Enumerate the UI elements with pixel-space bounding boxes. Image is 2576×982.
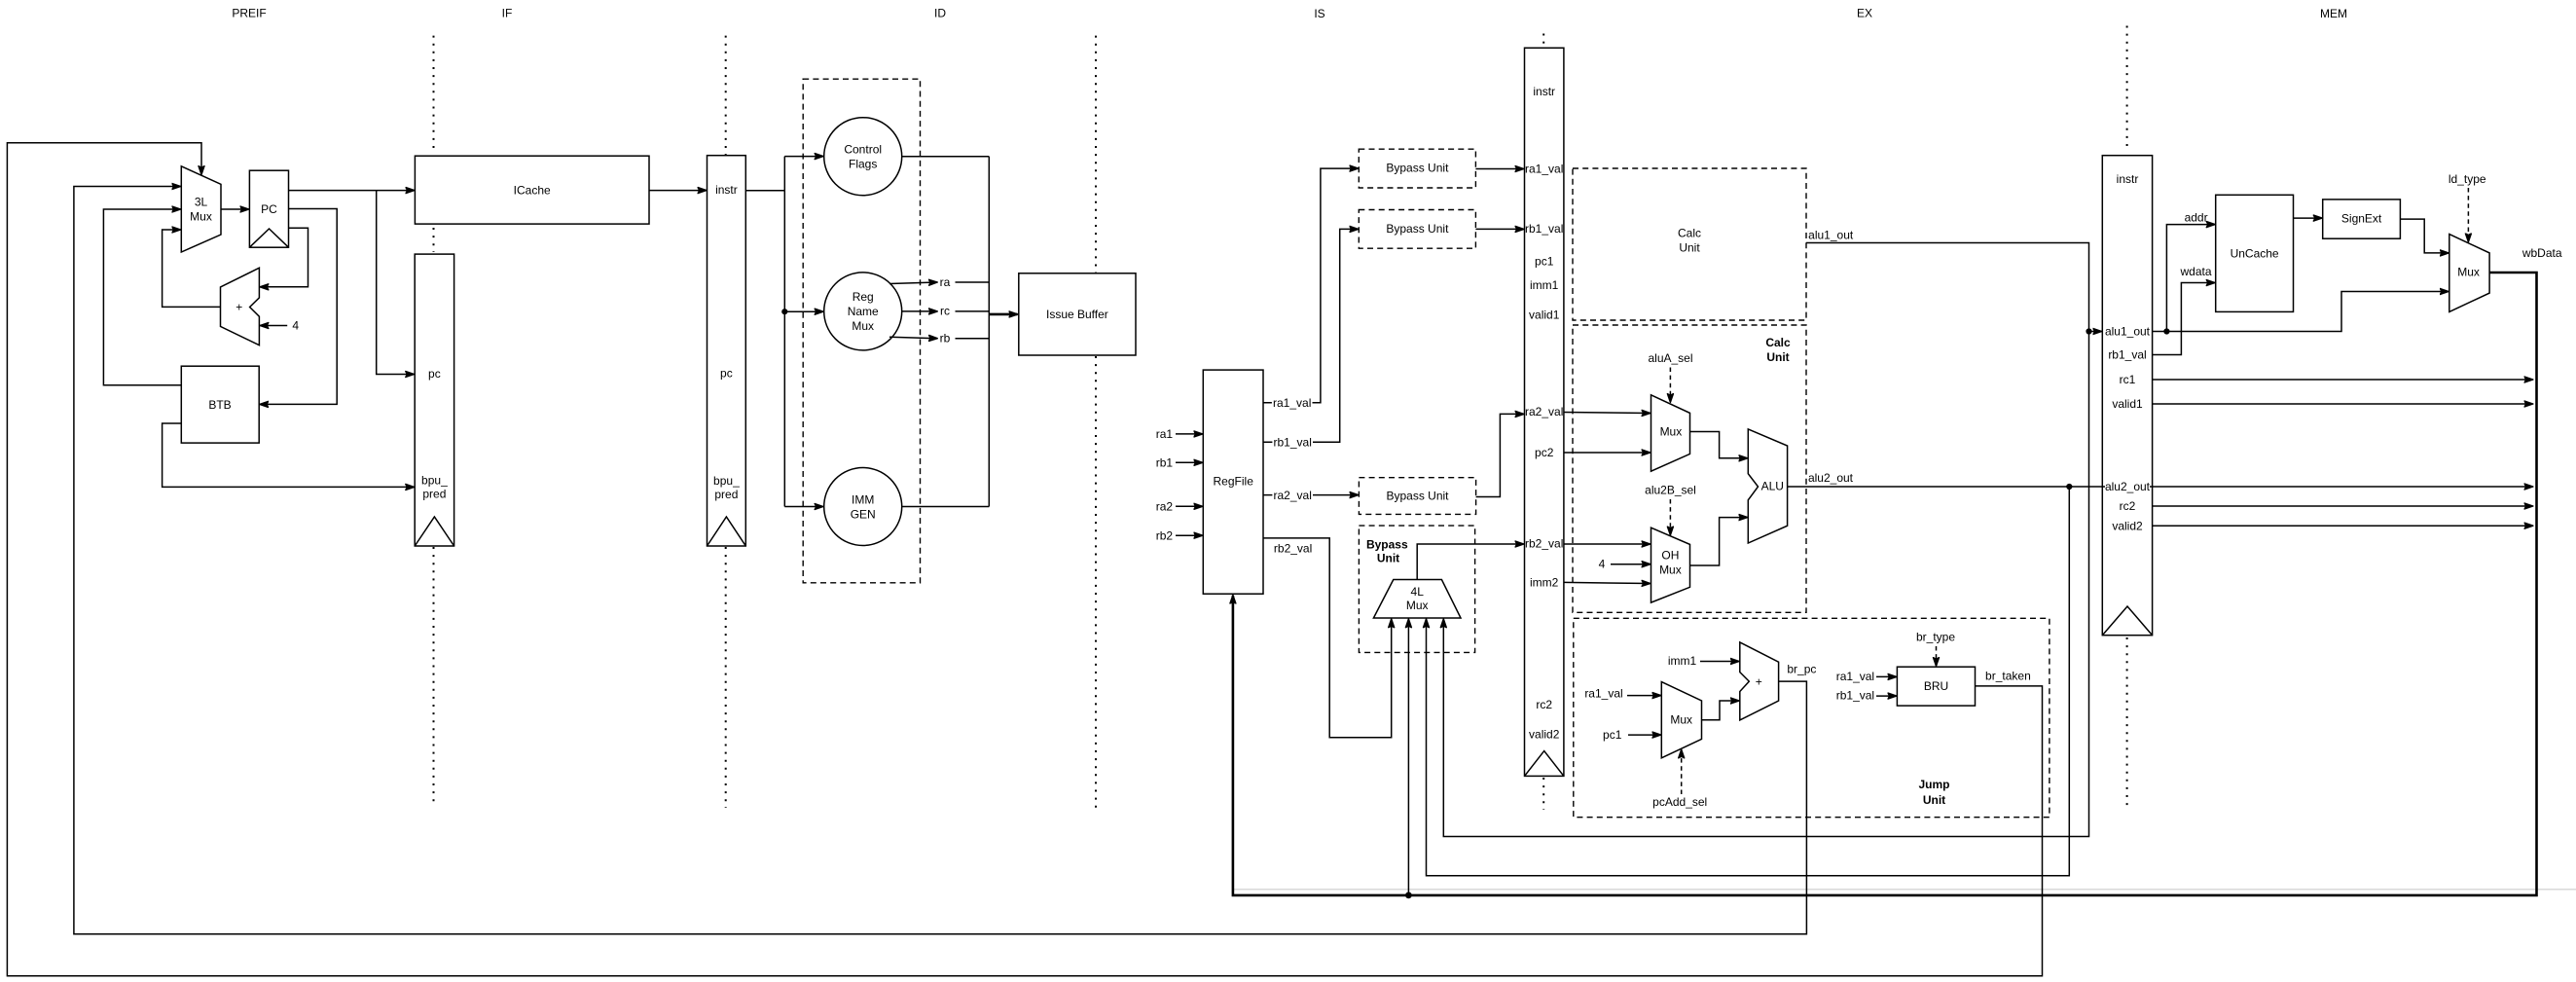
svg-text:Unit: Unit: [1923, 793, 1945, 807]
svg-text:Mux: Mux: [1660, 425, 1683, 439]
bypass unit 3 (dashed): [1359, 478, 1475, 515]
svg-text:imm2: imm2: [1530, 576, 1559, 590]
wire 3L Mux output to PC: [221, 208, 248, 210]
wire ra1 into RegFile: [1176, 433, 1202, 435]
svg-text:br_taken: br_taken: [1985, 669, 2031, 682]
svg-text:ID: ID: [934, 7, 946, 20]
wire Reg Name Mux to rc: [902, 310, 937, 312]
circle IMM GEN: [824, 468, 902, 546]
svg-text:Calc: Calc: [1765, 336, 1791, 349]
svg-text:rc1: rc1: [2120, 373, 2136, 386]
block Issue Buffer: [1019, 273, 1136, 355]
svg-text:pcAdd_sel: pcAdd_sel: [1652, 795, 1707, 809]
svg-text:Mux: Mux: [852, 319, 874, 333]
svg-text:ra1: ra1: [1156, 427, 1174, 441]
svg-text:rc2: rc2: [2120, 499, 2136, 513]
svg-text:aluA_sel: aluA_sel: [1648, 351, 1692, 365]
label alu1_out (in reg): [2105, 325, 2151, 339]
svg-text:Bypass Unit: Bypass Unit: [1386, 161, 1449, 174]
dashed select wire br_type to BRU: [1936, 646, 1938, 666]
wire br_pc feedback to 3L Mux input 1: [74, 187, 1807, 934]
svg-text:Bypass Unit: Bypass Unit: [1386, 222, 1449, 236]
wire Reg Name Mux to rb: [889, 337, 937, 339]
wire Reg Name Mux to ra: [889, 282, 937, 284]
svg-text:pc: pc: [720, 367, 733, 381]
wire rb2_val RegFile loop to 4L Mux input 1: [1263, 538, 1392, 738]
wire OH Mux to ALU input 2: [1690, 518, 1748, 565]
svg-text:Reg: Reg: [853, 290, 874, 304]
svg-text:MEM: MEM: [2320, 7, 2347, 20]
svg-text:alu1_out: alu1_out: [1808, 229, 1854, 242]
svg-text:Bypass Unit: Bypass Unit: [1386, 490, 1449, 503]
svg-text:ra1_val: ra1_val: [1525, 162, 1563, 175]
svg-text:UnCache: UnCache: [2231, 246, 2279, 260]
wire Bypass Unit 2 to IS reg rb1_val: [1475, 228, 1523, 230]
svg-text:pred: pred: [422, 487, 446, 500]
wire PC to ICache with branch to IF reg pc: [289, 190, 415, 192]
svg-text:imm1: imm1: [1530, 278, 1559, 292]
svg-text:rb1: rb1: [1156, 456, 1174, 470]
calc unit 1 dashed box (collapsed): [1573, 168, 1806, 320]
svg-text:valid2: valid2: [1529, 728, 1560, 742]
svg-text:Mux: Mux: [1406, 599, 1429, 612]
svg-text:br_pc: br_pc: [1787, 662, 1816, 675]
dashed select wire pcAdd_sel to pcAdd Mux: [1681, 750, 1683, 795]
wire IS reg pc2 to aluA Mux: [1564, 452, 1651, 454]
stage separator IS/EX: [1542, 34, 1544, 811]
calc unit 2 dashed box: [1573, 325, 1806, 612]
svg-text:Mux: Mux: [190, 210, 212, 224]
pipeline register EX/MEM (instr..valid2): [2102, 156, 2152, 636]
wire rb stub to collector: [956, 338, 990, 340]
svg-text:4L: 4L: [1411, 585, 1425, 599]
mux aluA Mux: [1651, 395, 1690, 471]
svg-text:+: +: [236, 301, 242, 314]
wire IMM GEN to collector: [902, 506, 990, 508]
wire aluA Mux to ALU input 1: [1690, 432, 1748, 458]
adder + (branch pc): [1740, 642, 1779, 720]
svg-text:addr: addr: [2185, 211, 2208, 225]
wire rc1 output: [2153, 379, 2533, 381]
junction dot wbData to 4L Mux: [1405, 892, 1412, 899]
wire rb1_val to BRU: [1876, 695, 1896, 697]
svg-text:pc2: pc2: [1535, 446, 1554, 459]
svg-text:ra1_val: ra1_val: [1273, 396, 1311, 410]
wire 4 to adder input 2: [260, 325, 287, 327]
wire pc1 to pcAdd Mux: [1628, 734, 1660, 736]
svg-text:3L: 3L: [195, 196, 208, 209]
svg-text:imm1: imm1: [1668, 654, 1697, 668]
svg-text:rb2: rb2: [1156, 528, 1174, 542]
dashed select wire ld_type to Mux: [2467, 188, 2469, 241]
wire collector vertical: [988, 157, 990, 507]
svg-text:EX: EX: [1857, 7, 1872, 20]
pipeline register ID/IS (instr, pc, bpu_pred): [707, 156, 746, 546]
dashed select wire aluA_sel to Mux: [1669, 368, 1671, 403]
ALU: [1748, 429, 1787, 543]
svg-text:PREIF: PREIF: [232, 6, 266, 19]
svg-text:Flags: Flags: [849, 158, 877, 171]
pipeline register IF/ID (pc, bpu_pred): [415, 254, 454, 546]
svg-text:rb2_val: rb2_val: [1274, 541, 1312, 555]
pipeline register IS/EX (instr..valid2): [1525, 48, 1564, 776]
svg-text:ra1_val: ra1_val: [1836, 670, 1874, 683]
svg-text:valid1: valid1: [1529, 309, 1560, 322]
wire alu1_out arrow into MEM reg: [2089, 331, 2102, 333]
svg-text:ra2_val: ra2_val: [1525, 405, 1563, 418]
mux 4L Mux: [1373, 580, 1461, 619]
wire alu1_out reg output to Mux lower input: [2153, 292, 2449, 332]
wire alu2_out ALU to MEM output arrow (passes through reg): [1788, 486, 2533, 488]
wire ICache to ID reg instr: [649, 190, 707, 192]
block RegFile: [1203, 370, 1263, 594]
svg-text:SignExt: SignExt: [2341, 212, 2382, 226]
svg-text:RegFile: RegFile: [1214, 474, 1254, 488]
wire collector to Issue Buffer (bold): [989, 313, 1017, 316]
svg-text:ALU: ALU: [1761, 480, 1784, 493]
svg-text:br_type: br_type: [1916, 631, 1955, 644]
wire rb1 into RegFile: [1176, 461, 1202, 463]
wire SignExt to Mux upper input: [2400, 219, 2448, 253]
wire instr to Reg Name Mux: [784, 310, 822, 312]
register PC: [249, 170, 288, 247]
svg-text:GEN: GEN: [851, 507, 876, 521]
stage separator IF/ID: [725, 36, 727, 808]
block ICache: [415, 156, 649, 224]
svg-text:ra: ra: [940, 275, 951, 289]
block SignExt: [2323, 200, 2401, 238]
wire addr branch to UnCache: [2166, 225, 2214, 332]
wire wbData Mux output feedback to RegFile (bold): [1233, 273, 2537, 895]
wire alu2_out feedback to 4L Mux input 3: [1427, 487, 2070, 876]
svg-text:bpu_: bpu_: [421, 473, 448, 487]
svg-text:alu2_out: alu2_out: [1808, 471, 1854, 485]
junction dot addr branch: [2163, 328, 2169, 334]
adder + (pc+4): [221, 268, 260, 346]
wire ra stub to collector: [956, 281, 990, 283]
circle Reg Name Mux: [824, 273, 902, 350]
svg-text:IF: IF: [502, 6, 513, 19]
svg-text:Calc: Calc: [1678, 227, 1701, 240]
svg-text:alu2_out: alu2_out: [2105, 480, 2151, 493]
wire IS reg imm2 to OH Mux: [1564, 582, 1651, 583]
decode dashed box: [803, 79, 920, 583]
svg-text:+: +: [1756, 674, 1762, 688]
wire ra1_val RegFile to Bypass Unit 1: [1263, 168, 1358, 403]
dashed select wire alu2B_sel to OH Mux: [1669, 499, 1671, 535]
wire instr to IMM GEN: [784, 506, 822, 508]
svg-text:rb1_val: rb1_val: [1525, 222, 1563, 236]
junction dot alu1_out: [2086, 328, 2091, 334]
wire IS reg rb2_val to OH Mux: [1564, 543, 1651, 545]
svg-text:ra2_val: ra2_val: [1274, 489, 1312, 502]
wire instr to Control Flags: [784, 156, 822, 158]
svg-text:BTB: BTB: [208, 398, 231, 412]
wire rc stub to collector: [956, 310, 990, 312]
svg-text:alu1_out: alu1_out: [2105, 325, 2151, 339]
wire instr fanout vertical: [745, 157, 784, 507]
wire faint gray guide line (right half): [1233, 889, 2576, 891]
reg field labels rb1_val rc1 valid1 rc2 valid2: [2108, 348, 2146, 533]
svg-text:Mux: Mux: [1659, 564, 1682, 577]
svg-text:pc1: pc1: [1603, 728, 1622, 742]
svg-text:Unit: Unit: [1377, 552, 1399, 565]
svg-text:IS: IS: [1314, 7, 1324, 20]
wire ra1_val to BRU: [1876, 675, 1896, 677]
stage separator PREIF/IF: [433, 36, 435, 807]
svg-text:wdata: wdata: [2179, 265, 2211, 278]
wire Control Flags to collector: [902, 156, 990, 158]
svg-text:rb1_val: rb1_val: [2108, 348, 2146, 362]
stage separator ID/IS: [1095, 36, 1097, 808]
svg-text:PC: PC: [261, 202, 277, 216]
svg-text:rb2_val: rb2_val: [1525, 537, 1563, 551]
wire rb2 into RegFile: [1176, 534, 1202, 536]
label rb1_val: [1272, 435, 1313, 449]
bypass unit 1 (dashed): [1359, 149, 1475, 188]
svg-text:4: 4: [292, 318, 299, 332]
mux pcAdd Mux: [1661, 682, 1701, 758]
svg-text:pc: pc: [428, 367, 441, 381]
wire UnCache to SignExt: [2294, 217, 2322, 219]
wire ra1_val to pcAdd Mux: [1627, 695, 1660, 697]
svg-text:ra2: ra2: [1156, 500, 1174, 514]
jump unit dashed box: [1574, 618, 2050, 817]
svg-text:Unit: Unit: [1766, 350, 1789, 364]
svg-text:valid2: valid2: [2112, 519, 2143, 532]
wire valid2 output: [2153, 525, 2533, 527]
mux 3L Mux: [181, 166, 221, 252]
wire PC to adder input 1: [260, 228, 308, 286]
svg-text:Unit: Unit: [1679, 241, 1700, 255]
wire IS reg ra2_val to aluA Mux: [1564, 413, 1651, 414]
block BTB: [181, 366, 259, 443]
svg-text:OH: OH: [1661, 549, 1679, 563]
svg-text:Issue Buffer: Issue Buffer: [1046, 308, 1108, 321]
label ra1_val: [1272, 396, 1313, 410]
junction dot alu2_out branch: [2066, 484, 2072, 490]
svg-text:alu2B_sel: alu2B_sel: [1645, 484, 1696, 497]
svg-text:pred: pred: [714, 488, 738, 501]
stage separator EX/MEM: [2126, 26, 2128, 809]
svg-text:valid1: valid1: [2112, 397, 2143, 411]
wire pc branch down to IF reg pc input: [377, 191, 415, 375]
wire ra2_val RegFile to Bypass Unit 3: [1263, 494, 1358, 496]
block BRU: [1897, 667, 1975, 706]
label ra2_val: [1272, 489, 1313, 502]
svg-text:Bypass: Bypass: [1366, 538, 1408, 552]
wire pcAdd Mux to pc adder input 2: [1702, 701, 1739, 720]
svg-text:rb1_val: rb1_val: [1274, 436, 1312, 450]
wire Bypass Unit 1 to IS reg ra1_val: [1475, 168, 1523, 170]
wire ra2 into RegFile: [1176, 505, 1202, 507]
svg-text:instr: instr: [2117, 172, 2139, 186]
wire br_taken feedback to 3L Mux top input: [7, 143, 2042, 976]
wire PC to BTB: [260, 209, 337, 405]
svg-text:rc2: rc2: [1536, 698, 1552, 711]
wire rc2 output: [2153, 505, 2533, 507]
svg-text:Name: Name: [848, 305, 879, 318]
wire imm1 to pc adder: [1700, 661, 1739, 663]
wire adder output to 3L Mux input 3: [163, 230, 221, 307]
wire 4 to OH Mux: [1611, 564, 1651, 565]
svg-text:Control: Control: [844, 143, 882, 157]
wire valid1 output: [2153, 403, 2533, 405]
svg-text:IMM: IMM: [852, 492, 874, 506]
svg-text:ra1_val: ra1_val: [1584, 687, 1622, 701]
svg-text:Mux: Mux: [2457, 266, 2480, 279]
svg-text:rc: rc: [940, 305, 950, 318]
svg-text:BRU: BRU: [1924, 679, 1948, 693]
svg-text:pc1: pc1: [1535, 255, 1554, 269]
wire BTB output to 3L Mux input 2: [103, 209, 181, 385]
svg-text:Jump: Jump: [1918, 778, 1949, 791]
svg-text:Mux: Mux: [1670, 713, 1692, 727]
wire wbData branch to 4L Mux input 2: [1407, 619, 1409, 895]
svg-text:ld_type: ld_type: [2449, 172, 2486, 186]
block UnCache: [2216, 195, 2294, 311]
junction dot instr fanout: [781, 309, 787, 314]
svg-text:wbData: wbData: [2522, 246, 2562, 260]
wire BTB to IF reg bpu_pred: [163, 423, 415, 487]
circle Control Flags: [824, 118, 902, 196]
wire 4L Mux output to IS reg rb2_val: [1417, 544, 1523, 580]
svg-text:ICache: ICache: [514, 183, 551, 197]
svg-text:rb1_val: rb1_val: [1836, 689, 1874, 703]
bypass unit 4 dashed box: [1359, 526, 1474, 652]
svg-text:instr: instr: [1533, 85, 1555, 98]
wire rb1_val to UnCache wdata: [2153, 283, 2215, 355]
svg-text:instr: instr: [715, 183, 738, 197]
wire alu1_out Calc Unit to MEM reg and feedback to 4L Mux input 4: [1443, 243, 2088, 837]
label alu2_out (in reg): [2105, 480, 2151, 493]
svg-text:rb: rb: [940, 332, 951, 346]
wire Bypass Unit 3 to IS reg ra2_val: [1476, 414, 1524, 496]
svg-text:bpu_: bpu_: [713, 474, 740, 488]
wire rb1_val RegFile to Bypass Unit 2: [1263, 229, 1358, 442]
mux wbData Mux: [2449, 235, 2489, 312]
mux OH Mux: [1651, 527, 1690, 602]
bypass unit 2 (dashed): [1359, 210, 1475, 249]
svg-text:4: 4: [1599, 558, 1606, 571]
